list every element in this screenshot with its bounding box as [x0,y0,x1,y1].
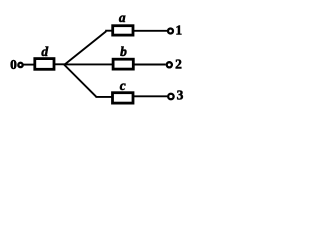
svg-text:1: 1 [175,22,182,37]
svg-text:a: a [119,10,126,25]
svg-text:d: d [41,44,48,59]
svg-text:b: b [120,44,127,59]
svg-text:0: 0 [10,57,17,72]
svg-text:c: c [120,78,126,93]
svg-text:3: 3 [177,88,184,103]
svg-text:2: 2 [175,56,182,71]
